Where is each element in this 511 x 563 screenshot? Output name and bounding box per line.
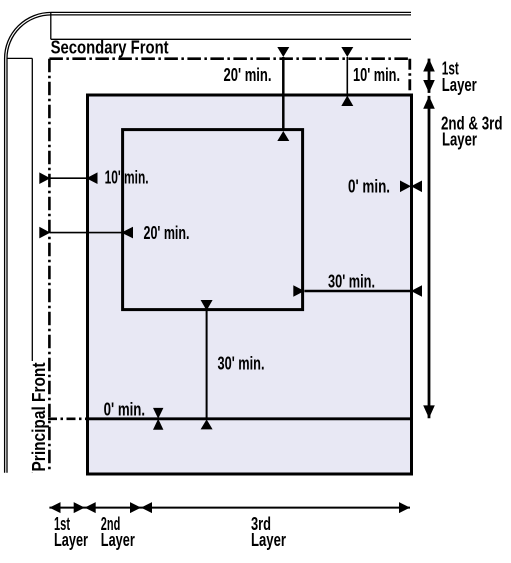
- svg-text:Layer: Layer: [54, 530, 88, 550]
- dimension 20' min top: line: [282, 57, 285, 131]
- layer scale bottom: left end arrow: [49, 502, 60, 513]
- 1st layer dimension right: line: [428, 59, 431, 93]
- principal front label mask: [31, 361, 48, 473]
- dimension 30' min bottom: arrow up at principal front line: [201, 419, 213, 429]
- svg-text:10' min.: 10' min.: [105, 167, 149, 187]
- dimension 0' min right: arrow pair at lot edge: [400, 181, 411, 193]
- svg-text:20' min.: 20' min.: [144, 223, 190, 243]
- dimension 10' min top: arrow down at property line: [341, 47, 353, 57]
- svg-text:30' min.: 30' min.: [218, 354, 265, 374]
- dimension 20' min left: arrow right at property line: [39, 227, 50, 239]
- dimension 20' min top: arrow up at envelope: [277, 131, 289, 141]
- dimension 10' min left: arrow right at property line: [39, 172, 50, 184]
- svg-text:Secondary Front: Secondary Front: [51, 37, 169, 57]
- svg-text:Layer: Layer: [442, 75, 477, 95]
- svg-text:Principal Front: Principal Front: [29, 362, 49, 471]
- dimension 0' min bottom: arrow pair at principal front line: [153, 408, 163, 419]
- svg-text:30' min.: 30' min.: [328, 271, 375, 291]
- dimension 10' min top: arrow up at lot edge: [341, 96, 353, 107]
- dimension 30' min bottom: arrow down at envelope: [201, 300, 213, 311]
- 2nd & 3rd layer dimension right: bottom arrow: [423, 405, 435, 418]
- right-of-way jog left: [7, 57, 32, 59]
- dimension 10' min left: line: [50, 177, 87, 179]
- svg-text:Layer: Layer: [101, 530, 135, 550]
- first layer right boundary (dashed): [408, 59, 411, 94]
- 2nd & 3rd layer dimension right: line: [428, 96, 431, 418]
- dimension 30' min right: line: [304, 290, 411, 293]
- svg-text:Layer: Layer: [251, 530, 286, 550]
- dimension 30' min bottom: line: [206, 311, 208, 420]
- street curb inner line (top + corner + left): [7, 15, 411, 473]
- principal front build-to line (solid, inside lot): [86, 417, 413, 420]
- dimension 20' min top: arrow down at property line: [277, 47, 289, 57]
- 1st layer dimension right: top arrow: [423, 59, 435, 72]
- dimension 30' min right: arrow right at envelope: [293, 285, 304, 297]
- layer scale bottom: right end arrow: [399, 502, 410, 513]
- lot area (2nd & 3rd layer, shaded): [88, 95, 412, 474]
- layer scale bottom: 1st/2nd boundary arrows: [74, 502, 85, 513]
- right-of-way line top: [51, 38, 411, 40]
- property line top (dash-dot): [49, 57, 409, 60]
- building envelope rectangle: [123, 130, 303, 310]
- svg-text:0' min.: 0' min.: [104, 400, 146, 420]
- property line left (dash-dot): [48, 59, 51, 470]
- svg-text:10' min.: 10' min.: [353, 65, 400, 85]
- dimension 20' min left: arrow left at envelope: [121, 227, 133, 239]
- dimension 10' min top: line: [346, 57, 348, 96]
- dimension 30' min right: arrow left at lot edge: [411, 285, 422, 297]
- street curb outer line (top + corner + left): [5, 12, 411, 472]
- svg-text:20' min.: 20' min.: [224, 65, 272, 85]
- right-of-way line left: [31, 58, 33, 472]
- right-of-way jog top: [50, 12, 52, 39]
- 1st layer dimension right: bottom arrow: [423, 80, 435, 93]
- layer scale bottom: line: [49, 507, 410, 509]
- svg-text:0' min.: 0' min.: [348, 177, 390, 197]
- layer scale bottom: 2nd/3rd boundary arrows: [130, 502, 141, 513]
- dimension 20' min left: line: [50, 232, 122, 234]
- dimension 10' min left: arrow left at lot edge: [86, 172, 97, 184]
- principal front line extension (dash-dot): [48, 417, 86, 420]
- svg-text:Layer: Layer: [442, 130, 477, 150]
- 2nd & 3rd layer dimension right: top arrow: [423, 96, 435, 109]
